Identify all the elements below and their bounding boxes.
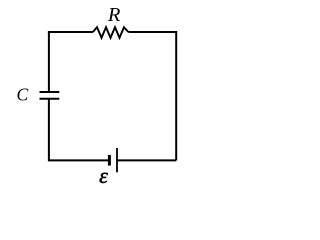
wire top-left (from top-left corner to resistor): [49, 32, 93, 33]
wire top-right + right side down to bottom-right corner: [128, 32, 176, 160]
battery long plate (positive): [116, 148, 118, 172]
wire left side (capacitor top plate up to top-left corner): [48, 32, 50, 92]
wire bottom-right (corner to battery positive plate): [117, 159, 176, 161]
svg-text:R: R: [107, 4, 121, 26]
svg-text:C: C: [16, 85, 28, 105]
capacitor C bottom plate: [40, 98, 60, 100]
svg-text:ε: ε: [99, 163, 108, 188]
capacitor C top plate: [40, 91, 60, 93]
battery short thick plate (negative): [108, 155, 111, 166]
wire bottom-left (battery negative plate to bottom-left corner): [49, 99, 108, 160]
resistor R1 zigzag: [93, 27, 128, 38]
